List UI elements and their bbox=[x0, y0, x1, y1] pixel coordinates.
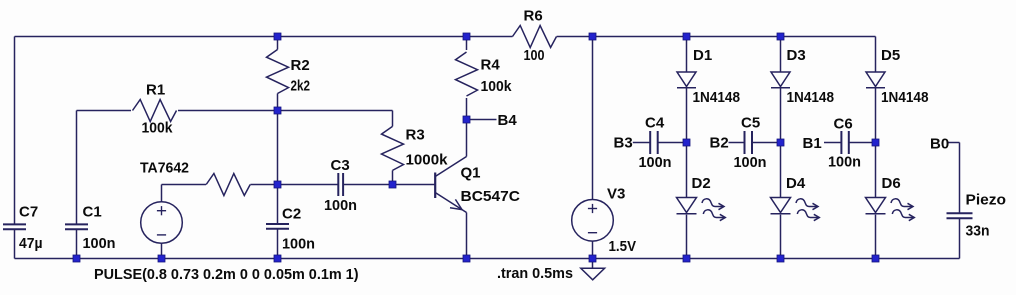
junction node at (277.5,258.5) bbox=[274, 255, 281, 262]
wire bottom ground rail bbox=[15, 258, 960, 260]
wire Q1 emitter vertical bbox=[466, 213, 468, 259]
wire top rail right segment bbox=[557, 36, 876, 38]
svg-text:R4: R4 bbox=[481, 57, 501, 74]
svg-text:C1: C1 bbox=[83, 204, 102, 221]
LED D6 bbox=[866, 198, 886, 213]
wire R2 top lead bbox=[277, 37, 279, 50]
wire D3 cathode to node bbox=[780, 88, 782, 143]
svg-text:C2: C2 bbox=[282, 206, 301, 223]
svg-text:PULSE(0.8 0.73 0.2m 0 0 0.05m: PULSE(0.8 0.73 0.2m 0 0 0.05m 0.1m 1) bbox=[94, 266, 359, 283]
wire R2 bottom lead bbox=[277, 94, 279, 111]
voltage source TA7642 bbox=[141, 202, 183, 244]
svg-text:B2: B2 bbox=[710, 135, 729, 152]
wire C3 row bbox=[278, 184, 339, 186]
junction node at (780.5,258.5) bbox=[777, 255, 784, 262]
wire B3 stub bbox=[633, 142, 650, 144]
svg-text:1N4148: 1N4148 bbox=[881, 89, 929, 106]
junction node at (875.5,142.5) bbox=[872, 139, 879, 146]
wire D1 anode bbox=[686, 37, 688, 73]
resistor TA7642 series (unlabeled) bbox=[206, 174, 250, 196]
svg-text:1N4148: 1N4148 bbox=[693, 89, 741, 106]
svg-text:C6: C6 bbox=[834, 116, 853, 133]
svg-text:C5: C5 bbox=[741, 114, 760, 131]
resistor R4 bbox=[456, 52, 478, 96]
wire V3 top lead bbox=[592, 37, 594, 200]
svg-text:D2: D2 bbox=[692, 175, 711, 192]
svg-text:B4: B4 bbox=[498, 112, 518, 129]
wire C6 to node bbox=[849, 142, 876, 144]
svg-text:1.5V: 1.5V bbox=[609, 238, 637, 255]
voltage source V3 bbox=[572, 200, 614, 242]
wire R1 row to R3 bbox=[278, 110, 393, 112]
svg-text:100n: 100n bbox=[324, 197, 357, 214]
wire R3 leads bbox=[392, 111, 394, 127]
junction node at (277.5,184.5) bbox=[274, 181, 281, 188]
wire D6 cathode bbox=[875, 215, 877, 259]
svg-text:1000k: 1000k bbox=[406, 152, 449, 169]
wire R4 top lead bbox=[466, 37, 468, 51]
diode D1 bbox=[677, 72, 696, 87]
svg-text:R2: R2 bbox=[291, 57, 310, 74]
svg-text:R1: R1 bbox=[146, 82, 165, 99]
svg-text:.tran 0.5ms: .tran 0.5ms bbox=[497, 265, 573, 282]
wire B2 stub bbox=[729, 142, 745, 144]
capacitor Piezo bbox=[947, 212, 973, 214]
wire TA7642 output row bbox=[161, 185, 163, 202]
transistor Q1 bbox=[434, 173, 436, 199]
junction node at (686.5,36.5) bbox=[683, 33, 690, 40]
svg-text:R6: R6 bbox=[524, 8, 543, 25]
wire D4 anode bbox=[780, 143, 782, 198]
capacitor C5 bbox=[744, 131, 746, 154]
wire top rail left segment bbox=[15, 36, 513, 38]
junction node at (686.5,142.5) bbox=[683, 139, 690, 146]
capacitor C7 bbox=[3, 223, 26, 225]
svg-text:100k: 100k bbox=[481, 78, 513, 95]
resistor R2 bbox=[267, 50, 289, 94]
resistor R3 bbox=[382, 126, 404, 170]
svg-text:100n: 100n bbox=[83, 235, 116, 252]
resistor R6 bbox=[513, 26, 557, 48]
svg-text:TA7642: TA7642 bbox=[140, 160, 189, 177]
LED D4 bbox=[771, 198, 791, 213]
wire node column R1 row to C3 row bbox=[277, 111, 279, 185]
svg-text:D1: D1 bbox=[693, 47, 712, 64]
wire V3 bottom lead bbox=[592, 241, 594, 258]
capacitor C6 bbox=[840, 131, 842, 154]
svg-text:R3: R3 bbox=[406, 127, 425, 144]
junction node at (875.5,258.5) bbox=[872, 255, 879, 262]
wire C2 column bbox=[277, 185, 279, 225]
wire Q1 collector vertical bbox=[466, 120, 468, 157]
junction node at (686.5,258.5) bbox=[683, 255, 690, 262]
junction node at (277.5,110.5) bbox=[274, 107, 281, 114]
svg-text:BC547C: BC547C bbox=[461, 188, 521, 205]
wire D2 anode bbox=[686, 143, 688, 198]
svg-text:Q1: Q1 bbox=[461, 164, 481, 181]
junction node at (277.5,36.5) bbox=[274, 33, 281, 40]
junction node at (466.5,119.5) bbox=[463, 116, 470, 123]
svg-text:B1: B1 bbox=[803, 135, 822, 152]
junction node at (161.5,258.5) bbox=[158, 255, 165, 262]
wire Q1 base bbox=[393, 184, 436, 186]
svg-text:V3: V3 bbox=[607, 186, 625, 203]
svg-text:D5: D5 bbox=[881, 47, 900, 64]
junction node at (592.5,36.5) bbox=[589, 33, 596, 40]
svg-text:C7: C7 bbox=[19, 204, 38, 221]
wire R4 bottom lead bbox=[466, 98, 468, 120]
junction node at (466.5,258.5) bbox=[463, 255, 470, 262]
svg-text:B3: B3 bbox=[614, 135, 633, 152]
LED D2 bbox=[677, 198, 697, 213]
wire D5 anode bbox=[875, 37, 877, 73]
wire B0 stub and Piezo column bbox=[949, 142, 960, 144]
svg-text:47µ: 47µ bbox=[19, 235, 43, 252]
svg-text:100n: 100n bbox=[734, 154, 767, 171]
junction node at (780.5,36.5) bbox=[777, 33, 784, 40]
svg-text:C4: C4 bbox=[645, 114, 665, 131]
wire D5 cathode to node bbox=[875, 88, 877, 143]
wire C4 to node bbox=[658, 142, 687, 144]
svg-text:Piezo: Piezo bbox=[966, 192, 1007, 209]
capacitor C2 bbox=[266, 223, 289, 225]
svg-text:100n: 100n bbox=[639, 154, 672, 171]
svg-text:D3: D3 bbox=[787, 47, 806, 64]
wire C1 column vertical bbox=[76, 111, 78, 225]
wire TA7642 bottom lead bbox=[161, 243, 163, 258]
svg-text:B0: B0 bbox=[930, 135, 949, 152]
wire left edge vertical (x=15) bbox=[14, 37, 16, 225]
svg-text:C3: C3 bbox=[331, 157, 350, 174]
ground symbol bbox=[592, 259, 594, 269]
junction node at (76.5,258.5) bbox=[73, 255, 80, 262]
junction node at (466.5,36.5) bbox=[463, 33, 470, 40]
svg-text:100n: 100n bbox=[828, 154, 861, 171]
svg-text:D4: D4 bbox=[786, 175, 806, 192]
junction node at (392.5,184.5) bbox=[389, 181, 396, 188]
wire D2 cathode bbox=[686, 215, 688, 259]
svg-text:2k2: 2k2 bbox=[291, 78, 311, 95]
junction node at (780.5,142.5) bbox=[777, 139, 784, 146]
diode D5 bbox=[866, 72, 885, 87]
svg-text:100: 100 bbox=[524, 47, 545, 64]
capacitor C4 bbox=[649, 131, 651, 154]
capacitor C3 bbox=[337, 173, 339, 196]
svg-text:1N4148: 1N4148 bbox=[787, 89, 835, 106]
svg-text:33n: 33n bbox=[966, 223, 990, 240]
diode D3 bbox=[771, 72, 790, 87]
wire R1 row bbox=[77, 110, 132, 112]
wire D4 cathode bbox=[780, 215, 782, 259]
resistor R1 bbox=[133, 100, 177, 122]
wire C5 to node bbox=[752, 142, 781, 144]
svg-text:100k: 100k bbox=[142, 120, 174, 137]
junction node at (592.5,258.5) bbox=[589, 255, 596, 262]
capacitor C1 bbox=[65, 223, 88, 225]
wire D1 cathode to node bbox=[686, 88, 688, 143]
svg-text:100n: 100n bbox=[282, 235, 315, 252]
wire D6 anode bbox=[875, 143, 877, 198]
svg-text:D6: D6 bbox=[882, 175, 901, 192]
wire B1 stub bbox=[824, 142, 841, 144]
wire D3 anode bbox=[780, 37, 782, 73]
wire B4 stub bbox=[467, 119, 497, 121]
